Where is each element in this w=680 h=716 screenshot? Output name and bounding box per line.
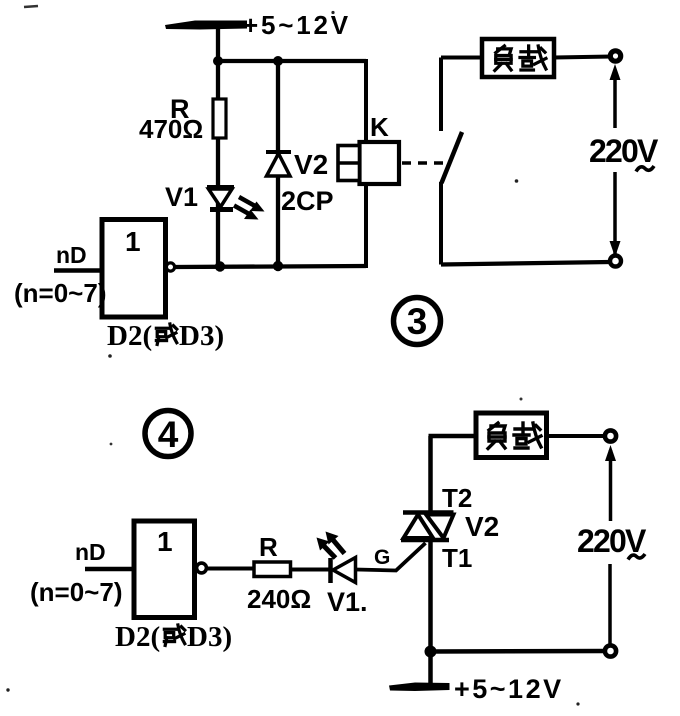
svg-text:V2: V2: [465, 511, 499, 542]
svg-text:4: 4: [158, 414, 179, 455]
wire junction to power bar: [428, 652, 433, 687]
terminal bottom right (circuit 4): [605, 645, 616, 656]
wire load to terminal (circuit 4): [547, 434, 607, 438]
svg-text:V1: V1: [165, 182, 198, 212]
wire bubble to resistor: [207, 567, 254, 571]
svg-text:1: 1: [125, 226, 141, 257]
paper speck below D2 label: [108, 354, 112, 358]
220V dimension arrow upper (circuit 4): [605, 445, 616, 521]
wire bottom rail circuit 3: [176, 266, 367, 267]
node junction bottom left: [215, 261, 225, 271]
node junction top left: [213, 56, 223, 66]
label D2(or D3) circuit 4: [115, 621, 232, 653]
node junction bottom (circuit 4): [425, 646, 437, 658]
svg-text:+5~12V: +5~12V: [454, 674, 564, 704]
gate output bubble: [166, 263, 174, 271]
wire switch to load box: [441, 56, 482, 60]
load box (circuit 4): [476, 413, 547, 458]
resistor R 470: [213, 99, 226, 138]
paper speck near load c4: [520, 398, 523, 401]
svg-text:K: K: [370, 112, 389, 142]
paper speck near top: [331, 11, 334, 14]
svg-text:V1.: V1.: [327, 587, 368, 617]
wire from power bar down to bottom rail (x=218): [216, 24, 220, 266]
load box (top): [482, 39, 554, 77]
node junction top mid: [273, 56, 283, 66]
svg-text:470Ω: 470Ω: [139, 114, 203, 144]
svg-text:220V: 220V: [577, 523, 647, 559]
220V dimension arrow lower (circuit 4): [608, 564, 612, 647]
svg-text:(n=0~7): (n=0~7): [14, 278, 107, 308]
LED V1 (circuit 4): [331, 558, 356, 584]
paper speck left of switch: [515, 179, 519, 183]
svg-text:1: 1: [157, 526, 173, 557]
input wire nD (circuit 4): [85, 567, 134, 572]
svg-text:240Ω: 240Ω: [247, 584, 311, 614]
resistor R 240: [254, 562, 291, 577]
wire triac up to load corner: [428, 436, 433, 511]
paper speck top-left dash: [24, 6, 38, 7]
diode V2: [266, 152, 291, 176]
wire load box to terminal: [554, 57, 612, 58]
220V dimension arrow lower: [610, 172, 621, 257]
gate U1 box (circuit 3): [102, 220, 166, 318]
wire triac down to bottom rail: [428, 541, 433, 652]
diode V2 branch wire (x=278): [276, 61, 280, 266]
svg-text:D2(: D2(: [115, 621, 160, 653]
svg-text:G: G: [374, 546, 390, 569]
svg-text:D3): D3): [179, 320, 224, 352]
triac V2: [401, 513, 454, 541]
gate 2 output bubble: [197, 563, 207, 573]
svg-text:nD: nD: [75, 539, 106, 565]
220V dimension arrow upper: [610, 64, 621, 128]
wire bottom rail (circuit 4): [431, 649, 607, 654]
svg-text:(n=0~7): (n=0~7): [30, 577, 123, 607]
paper speck dot bottom left: [6, 688, 9, 691]
LED V1: [207, 187, 234, 210]
svg-text:T2: T2: [442, 483, 472, 513]
paper speck mid left: [110, 443, 113, 446]
svg-text:D2(: D2(: [107, 320, 152, 352]
label D2(or D3) circuit 3: [107, 320, 224, 352]
svg-text:nD: nD: [56, 242, 87, 268]
node junction bottom mid: [273, 261, 283, 271]
wire corner to load box (circuit 4): [429, 434, 477, 439]
label fuzai (load circuit 4): [488, 423, 505, 449]
wire LED to gate bend: [356, 543, 426, 571]
terminal top right (circuit 4): [605, 430, 616, 441]
svg-text:+5~12V: +5~12V: [243, 10, 351, 40]
terminal bottom right (circuit 3): [610, 256, 621, 267]
input wire nD: [54, 268, 102, 273]
wire to relay (x=366 upper): [364, 59, 368, 142]
svg-text:220V: 220V: [589, 133, 659, 169]
svg-text:T1: T1: [442, 543, 472, 573]
dashed link relay to contact: [402, 161, 444, 165]
label tilde under V: [636, 166, 654, 172]
relay contact switch: [441, 58, 462, 265]
relay K coil: [338, 142, 399, 184]
power rail bar +5~12V: [165, 21, 247, 30]
LED V1 emission arrows: [234, 197, 265, 220]
wire resistor to LED: [290, 568, 329, 572]
power rail bar bottom +5~12V: [389, 683, 450, 692]
svg-text:3: 3: [407, 301, 428, 342]
svg-text:V2: V2: [294, 149, 328, 180]
LED V1 emission arrows (circuit 4): [317, 532, 345, 559]
wire relay to bottom rail (x=366 lower): [364, 184, 368, 268]
wire top rail: [216, 59, 366, 63]
label fuzai (top load): [495, 46, 511, 70]
wire bottom right of circuit 3: [441, 262, 610, 265]
circled figure number 3: [394, 298, 441, 345]
terminal top right (circuit 3): [610, 51, 620, 61]
label tilde under V (circuit 4): [628, 554, 645, 560]
svg-text:R: R: [259, 532, 278, 562]
circled figure number 4: [145, 411, 191, 457]
svg-text:D3): D3): [187, 621, 232, 653]
svg-text:2CP: 2CP: [281, 186, 334, 216]
paper speck bottom right: [576, 702, 579, 705]
gate U2 box (circuit 4): [134, 521, 195, 618]
